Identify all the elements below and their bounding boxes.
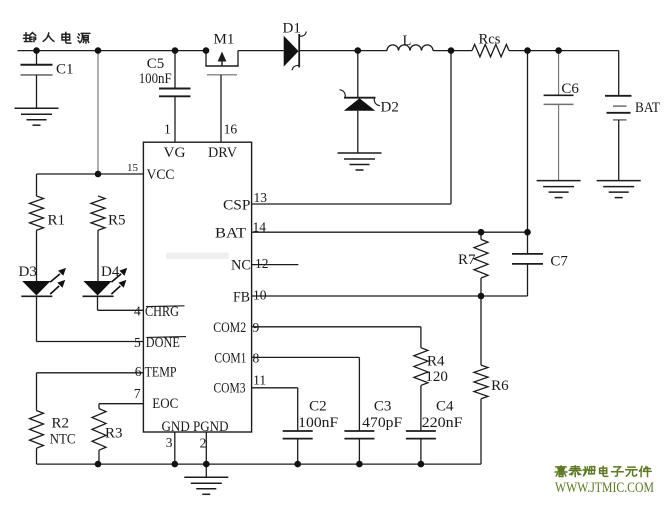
svg-text:NTC: NTC bbox=[50, 432, 76, 448]
ground below C6 bbox=[537, 181, 581, 198]
ground symbol below PGND bbox=[184, 464, 228, 494]
wire R2 to ground rail bbox=[36, 448, 38, 464]
wire TEMP pin 6 from R2 bbox=[37, 372, 144, 374]
watermark 嘉泰姆电子元件 bbox=[555, 466, 651, 477]
svg-text:6: 6 bbox=[135, 364, 142, 379]
svg-text:R1: R1 bbox=[48, 213, 66, 229]
svg-text:470pF: 470pF bbox=[362, 415, 402, 431]
wire BAT pin 14 bbox=[252, 231, 528, 233]
wire inductor L to Rcs bbox=[433, 50, 472, 52]
wire Rcs to battery branch bbox=[509, 50, 619, 52]
wire PGND pin 2 down bbox=[205, 432, 207, 464]
resistor R4 bbox=[414, 348, 428, 386]
wire R1 to D3 bbox=[36, 230, 38, 281]
svg-text:8: 8 bbox=[253, 350, 260, 365]
wire battery branch down bbox=[618, 51, 620, 96]
svg-text:NC: NC bbox=[231, 258, 251, 274]
svg-text:4: 4 bbox=[134, 304, 141, 319]
wire R4 to C4 bbox=[420, 385, 422, 431]
wire VCC rail to pin 15 bbox=[37, 173, 144, 175]
faint watermark inside IC bbox=[166, 253, 229, 260]
svg-text:15: 15 bbox=[127, 162, 139, 174]
LED D4 bbox=[83, 268, 128, 310]
wire BAT sense vertical (node to pin 14 rail) bbox=[527, 51, 529, 233]
pin name DONE with overbar bbox=[146, 335, 186, 351]
wire CSP sense vertical (node L-Rcs down to pin 13) bbox=[450, 51, 452, 204]
svg-text:10: 10 bbox=[253, 288, 267, 303]
wire TEMP to R2 bbox=[36, 373, 38, 411]
svg-text:Rcs: Rcs bbox=[479, 32, 501, 48]
svg-text:R4: R4 bbox=[427, 354, 445, 370]
svg-text:14: 14 bbox=[253, 220, 267, 235]
ground below battery bbox=[597, 181, 641, 198]
svg-text:2: 2 bbox=[200, 436, 207, 451]
svg-text:R7: R7 bbox=[458, 252, 476, 268]
diode D1 (schottky) bbox=[284, 32, 307, 71]
resistor R2 NTC bbox=[30, 411, 44, 449]
wire input rail from supply to M1 source bbox=[18, 50, 207, 52]
svg-text:1: 1 bbox=[164, 122, 171, 137]
wire R3 to ground rail bbox=[98, 450, 100, 464]
svg-text:VCC: VCC bbox=[147, 167, 175, 183]
capacitor C2 bbox=[283, 431, 313, 464]
svg-text:7: 7 bbox=[134, 386, 141, 401]
wire CHRG pin 4 from D4 bbox=[98, 309, 144, 311]
capacitor C7 bbox=[512, 232, 543, 296]
svg-text:DRV: DRV bbox=[208, 145, 238, 161]
svg-text:13: 13 bbox=[254, 190, 268, 205]
resistor R6 bbox=[474, 296, 488, 464]
svg-text:C1: C1 bbox=[56, 62, 74, 78]
wire EOC to R3 bbox=[98, 404, 100, 409]
svg-text:FB: FB bbox=[233, 290, 250, 306]
svg-text:C6: C6 bbox=[561, 81, 579, 97]
transistor M1 (P-MOSFET) bbox=[205, 51, 238, 143]
svg-text:COM3: COM3 bbox=[214, 381, 246, 397]
wire D2 branch vertical bbox=[357, 51, 359, 98]
inductor L bbox=[387, 45, 433, 51]
svg-text:C5: C5 bbox=[147, 56, 165, 72]
wire ground rail bbox=[37, 463, 482, 465]
wire COM3 pin 11 to C2 bbox=[252, 388, 298, 431]
capacitor C4 bbox=[406, 431, 436, 464]
pin name CHRG with overbar bbox=[145, 304, 185, 320]
resistor Rcs bbox=[472, 44, 509, 56]
svg-text:D4: D4 bbox=[101, 264, 120, 280]
svg-text:TEMP: TEMP bbox=[145, 364, 177, 380]
svg-text:L: L bbox=[403, 33, 412, 49]
ground below D2 bbox=[338, 153, 382, 170]
svg-text:EOC: EOC bbox=[152, 396, 178, 412]
LED D3 bbox=[21, 268, 66, 342]
svg-text:CSP: CSP bbox=[223, 198, 251, 214]
svg-text:C2: C2 bbox=[309, 399, 327, 415]
svg-text:C7: C7 bbox=[550, 254, 568, 270]
svg-text:120: 120 bbox=[425, 369, 448, 385]
svg-text:C4: C4 bbox=[436, 399, 454, 415]
wire CSP pin 13 bbox=[252, 203, 451, 205]
svg-text:COM1: COM1 bbox=[214, 350, 246, 366]
wire D1 cathode to inductor L bbox=[299, 50, 387, 52]
svg-text:11: 11 bbox=[253, 373, 266, 388]
resistor R5 bbox=[91, 196, 105, 230]
battery BAT bbox=[605, 96, 632, 181]
svg-text:WWW.JTMIC.COM: WWW.JTMIC.COM bbox=[555, 480, 654, 496]
resistor R1 bbox=[30, 196, 44, 230]
svg-text:R2: R2 bbox=[52, 416, 70, 432]
diode D2 (schottky to ground) bbox=[340, 90, 381, 153]
wire M1 drain to D1 anode bbox=[238, 50, 284, 52]
svg-text:C3: C3 bbox=[374, 399, 392, 415]
svg-text:12: 12 bbox=[255, 256, 269, 271]
capacitor C1 bbox=[21, 51, 53, 109]
resistor R3 bbox=[92, 409, 106, 451]
svg-text:D2: D2 bbox=[381, 100, 399, 116]
svg-text:D3: D3 bbox=[19, 264, 37, 280]
svg-text:R6: R6 bbox=[491, 378, 509, 394]
svg-text:16: 16 bbox=[224, 122, 238, 137]
svg-text:GND PGND: GND PGND bbox=[162, 419, 229, 435]
svg-text:D1: D1 bbox=[283, 21, 301, 37]
label 输入电源 (input power) bbox=[23, 32, 90, 43]
wire NC pin 12 stub bbox=[252, 264, 299, 266]
svg-text:BAT: BAT bbox=[215, 226, 246, 242]
svg-text:M1: M1 bbox=[214, 32, 235, 48]
svg-text:VG: VG bbox=[164, 145, 187, 161]
wire VCC branch vertical from input rail bbox=[97, 51, 99, 174]
svg-text:9: 9 bbox=[253, 320, 260, 335]
capacitor C5 bbox=[159, 51, 191, 143]
wire FB pin 10 bbox=[252, 295, 528, 297]
capacitor C6 bbox=[544, 51, 574, 181]
wire COM2 pin 9 to R4 bbox=[252, 327, 421, 348]
svg-text:R3: R3 bbox=[105, 426, 123, 442]
wire R5 to D4 bbox=[97, 230, 99, 281]
capacitor C3 bbox=[344, 431, 374, 464]
svg-text:100nF: 100nF bbox=[298, 415, 338, 431]
svg-text:220nF: 220nF bbox=[422, 415, 463, 431]
ground below C1 bbox=[15, 108, 59, 125]
wire COM1 pin 8 to C3 bbox=[252, 357, 360, 431]
svg-text:3: 3 bbox=[166, 435, 173, 450]
svg-text:BAT: BAT bbox=[635, 100, 660, 116]
wire DONE pin 5 from D3 bbox=[37, 341, 144, 343]
resistor R7 bbox=[474, 232, 488, 296]
op-amp U1 charger IC body bbox=[143, 142, 251, 432]
wire GND pin 3 down bbox=[174, 432, 176, 464]
svg-text:COM2: COM2 bbox=[213, 320, 246, 336]
svg-text:100nF: 100nF bbox=[139, 71, 172, 87]
wire EOC pin 7 from R3 bbox=[99, 403, 143, 405]
svg-text:5: 5 bbox=[134, 335, 141, 350]
wire R1 branch from VCC rail bbox=[36, 174, 38, 196]
svg-text:R5: R5 bbox=[108, 213, 126, 229]
